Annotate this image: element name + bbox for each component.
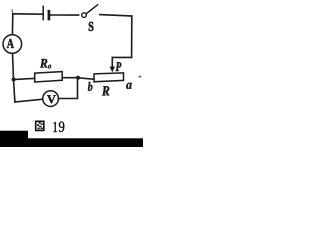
wire junction to rheostat terminal b — [78, 78, 94, 79]
black scan bar left — [0, 131, 28, 147]
wire left vertical upper segment — [11, 14, 13, 35]
label S — [89, 22, 94, 31]
voltmeter V body — [43, 91, 59, 107]
slider arrow shaft P — [111, 57, 113, 67]
wire switch to top-right corner — [100, 15, 132, 16]
wire battery to switch — [50, 14, 78, 16]
wire left junction to R0 — [14, 78, 35, 79]
wire R0 to right junction — [62, 77, 78, 79]
label a — [126, 83, 132, 89]
wire top horizontal left segment — [13, 13, 43, 15]
battery cell — [43, 6, 49, 19]
ammeter letter A — [7, 39, 14, 48]
node junction left — [12, 78, 16, 82]
wire ammeter to left junction to bottom corner — [13, 53, 15, 102]
black scan bar bottom — [0, 138, 143, 147]
caption glyph tu (figure) — [35, 121, 45, 132]
node junction right — [76, 76, 80, 80]
rheostat R body — [94, 73, 124, 82]
label R0 — [40, 59, 51, 69]
caption text 19 — [54, 122, 65, 133]
wire voltmeter branch bottom right — [59, 78, 78, 99]
switch S pivot — [82, 13, 87, 18]
ammeter A body — [3, 35, 22, 54]
wire right corner to slider arrow — [112, 56, 131, 58]
stray mark right of terminal a — [138, 76, 141, 78]
voltmeter letter V — [47, 95, 56, 103]
wire right vertical — [131, 16, 133, 57]
label P — [116, 62, 122, 71]
wire stub above top-left corner — [11, 10, 14, 14]
label b — [88, 82, 93, 91]
resistor R0 body — [35, 72, 63, 82]
switch S lever — [86, 5, 97, 14]
slider arrow head — [110, 67, 115, 73]
wire voltmeter branch bottom left — [15, 99, 43, 102]
label R — [102, 86, 109, 95]
